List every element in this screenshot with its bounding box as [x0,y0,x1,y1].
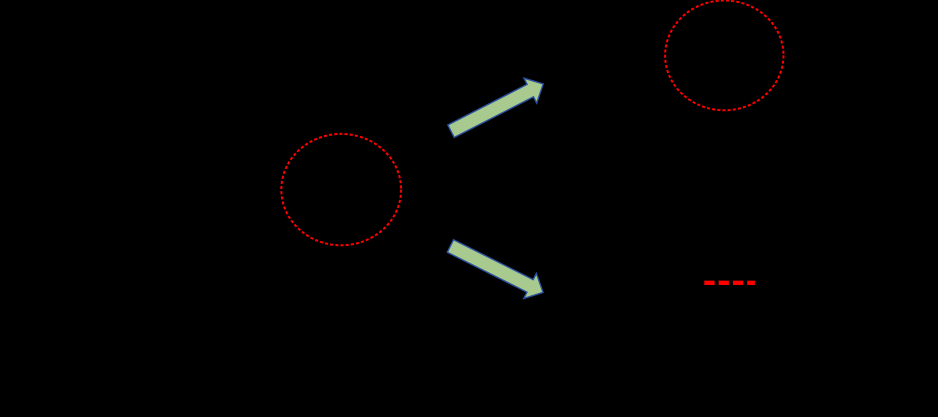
thick red dashed underline (lower right) [704,281,755,285]
block arrow (lower, pointing down-right) [444,233,549,304]
dashed highlight ellipse (top right) [665,1,783,111]
dashed highlight ellipse (left, around source term) [281,134,401,245]
block arrow (upper, pointing up-right) [445,72,550,144]
